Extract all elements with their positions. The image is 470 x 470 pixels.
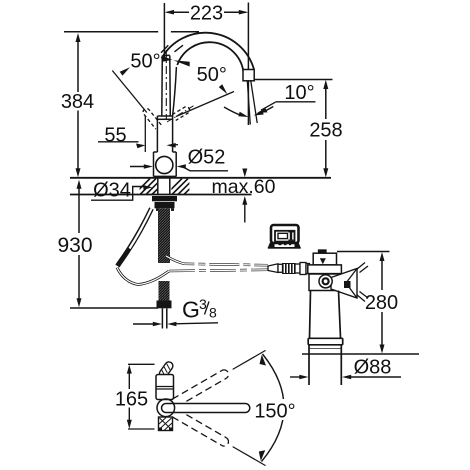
svg-text:223: 223 [190,3,223,25]
thread dim arrows [133,323,154,325]
dimension 280 [337,251,390,253]
dimension O52 leaders [130,166,147,168]
dimension 384 line [77,37,79,92]
spout body right curve [173,67,177,116]
hose nut lower [157,301,172,309]
faucet lever bar [162,55,171,115]
pull-out hose thick [118,209,152,267]
plan lever tip [158,360,175,379]
braided hose lower [159,281,170,301]
arrow 384 top [76,33,81,42]
arrow 930 top [77,180,82,189]
head [308,265,342,274]
svg-text:930: 930 [57,234,92,257]
svg-text:Ø52: Ø52 [188,147,226,169]
svg-text:10°: 10° [284,82,314,104]
ref line top (384 upper extension) [64,31,158,33]
swivel arc 150 [262,354,285,462]
horizontal hose upper dashed [166,256,268,265]
shank through countertop [158,179,170,195]
svg-text:280: 280 [365,292,398,314]
water stream lines [247,81,250,125]
braided hose upper [158,209,170,264]
spout inner arc [177,42,243,71]
clamp arm [331,269,357,299]
right dashed knob [172,107,189,121]
outlet square [243,70,254,81]
hose loop lower [117,268,169,285]
faucet hub [157,116,172,152]
plan body [156,375,174,400]
dimension O88 [290,376,301,378]
svg-text:G: G [182,297,200,323]
svg-text:165: 165 [115,389,148,411]
knob circle [319,275,332,288]
angle arc under spout [224,107,243,116]
svg-text:50°: 50° [197,64,227,86]
svg-text:Ø88: Ø88 [354,357,392,379]
bracket section [309,274,340,291]
arrowheads group [76,33,82,307]
dimension 930 line [78,184,80,233]
horizontal hose lower dashed [169,270,268,271]
countertop top line [70,177,331,179]
dimension 258 [254,80,332,174]
svg-text:Ø34: Ø34 [93,180,131,202]
svg-text:384: 384 [61,91,94,113]
svg-text:max.60: max.60 [212,176,276,198]
svg-text:8: 8 [209,305,217,321]
dimension 55 [144,116,146,152]
lever rotation arrows at top [162,56,173,62]
dimension 223 [164,3,248,126]
left dashed knob [143,109,161,130]
right knob centerline [167,106,194,123]
cylinder bottom ring line (280 ref) [302,353,419,355]
arrow 384 bottom [76,168,81,177]
filter cylinder [308,291,343,386]
ring circle [156,156,173,173]
dimension 165 [128,363,155,365]
mounting nut (black) [152,196,177,211]
countertop bottom line [70,194,252,196]
plan bottom block [159,417,173,431]
ref line 930 bottom [70,307,158,309]
cap [313,253,336,265]
G3/8 tube [161,308,163,328]
dashed spout positions [172,368,230,407]
svg-text:258: 258 [309,120,342,142]
svg-text:55: 55 [104,125,126,147]
lever centerline dash-dot [165,50,167,119]
countertop hatching left [134,179,168,195]
radial extension lines [233,350,266,465]
wall ticks [357,263,369,302]
ring section (O52) [154,152,177,177]
arrow 930 bottom [77,298,82,307]
svg-text:150°: 150° [254,401,295,423]
swivel circle [157,399,175,417]
plan spout capsule [162,404,250,413]
svg-text:50°: 50° [130,51,160,73]
spout outer arc [162,33,255,70]
nipple [319,250,327,253]
countertop hatching right [166,179,200,195]
